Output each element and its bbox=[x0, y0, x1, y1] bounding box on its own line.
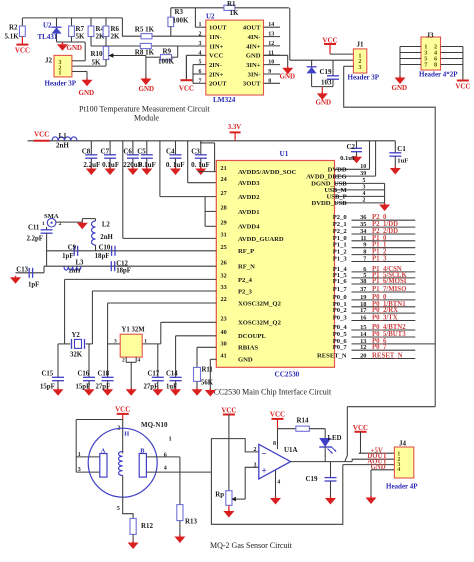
svg-text:VCC: VCC bbox=[270, 411, 285, 419]
svg-text:5: 5 bbox=[117, 506, 120, 512]
svg-text:Module: Module bbox=[134, 114, 159, 123]
svg-text:2.2pF: 2.2pF bbox=[27, 236, 43, 243]
svg-text:1pF: 1pF bbox=[28, 281, 39, 288]
svg-text:1: 1 bbox=[42, 221, 45, 227]
svg-text:J3: J3 bbox=[427, 31, 435, 39]
svg-text:RESET_N: RESET_N bbox=[317, 353, 347, 360]
svg-text:AVDD1: AVDD1 bbox=[238, 209, 260, 216]
svg-text:100K: 100K bbox=[158, 58, 175, 66]
svg-text:AVDD_GUARD: AVDD_GUARD bbox=[238, 236, 284, 243]
svg-text:1IN+: 1IN+ bbox=[209, 43, 224, 50]
svg-text:RF_P: RF_P bbox=[238, 248, 254, 255]
svg-text:3: 3 bbox=[114, 338, 117, 344]
svg-text:AVDD_DREG: AVDD_DREG bbox=[306, 173, 347, 180]
svg-text:40: 40 bbox=[221, 329, 227, 336]
svg-text:C2: C2 bbox=[347, 143, 356, 151]
svg-text:CC2530: CC2530 bbox=[275, 371, 300, 379]
svg-text:10: 10 bbox=[360, 164, 366, 170]
svg-text:103: 103 bbox=[321, 79, 332, 87]
svg-text:3: 3 bbox=[358, 64, 361, 71]
svg-text:P0_3: P0_3 bbox=[333, 315, 348, 322]
svg-text:P2_3: P2_3 bbox=[238, 288, 253, 295]
svg-text:1K: 1K bbox=[230, 9, 240, 17]
svg-text:R9: R9 bbox=[163, 47, 172, 55]
svg-text:+: + bbox=[262, 466, 267, 476]
svg-text:L3: L3 bbox=[76, 260, 85, 267]
svg-text:R5 1K: R5 1K bbox=[135, 26, 155, 34]
svg-text:C17: C17 bbox=[148, 371, 160, 378]
svg-text:C15: C15 bbox=[42, 371, 54, 378]
svg-text:100K: 100K bbox=[173, 17, 190, 25]
svg-text:P1_3: P1_3 bbox=[372, 256, 387, 263]
svg-text:P2_4: P2_4 bbox=[238, 277, 253, 284]
svg-text:U2: U2 bbox=[43, 22, 52, 30]
svg-text:39: 39 bbox=[360, 171, 366, 177]
svg-text:17: 17 bbox=[360, 307, 367, 314]
svg-text:GND: GND bbox=[371, 464, 386, 471]
svg-text:3: 3 bbox=[78, 467, 81, 473]
svg-text:3: 3 bbox=[199, 41, 202, 47]
svg-text:AVDD2: AVDD2 bbox=[238, 194, 260, 201]
svg-text:GND: GND bbox=[139, 85, 155, 93]
svg-text:VCC: VCC bbox=[115, 406, 130, 414]
svg-text:15pF: 15pF bbox=[76, 384, 91, 391]
svg-text:MQ-2 Gas Sensor Circuit: MQ-2 Gas Sensor Circuit bbox=[210, 541, 293, 550]
svg-text:C7: C7 bbox=[101, 147, 110, 155]
svg-text:4IN-: 4IN- bbox=[248, 34, 261, 41]
svg-text:27pF: 27pF bbox=[144, 384, 159, 391]
svg-text:2IN-: 2IN- bbox=[209, 62, 222, 69]
svg-text:P0_2: P0_2 bbox=[333, 307, 348, 314]
svg-text:Y1 32M: Y1 32M bbox=[122, 327, 146, 334]
svg-text:5K: 5K bbox=[76, 33, 86, 41]
svg-text:C5: C5 bbox=[137, 147, 146, 155]
svg-text:C3: C3 bbox=[191, 147, 200, 155]
svg-text:Header 4P: Header 4P bbox=[386, 483, 418, 491]
svg-text:3IN-: 3IN- bbox=[248, 71, 261, 78]
svg-text:A: A bbox=[101, 447, 106, 454]
svg-text:C19: C19 bbox=[320, 68, 333, 76]
svg-text:RF_N: RF_N bbox=[238, 264, 255, 271]
svg-text:4: 4 bbox=[164, 466, 167, 472]
svg-text:12: 12 bbox=[360, 344, 366, 351]
svg-text:Header 3P: Header 3P bbox=[45, 80, 77, 88]
svg-text:CC2530 Main Chip Interface Cir: CC2530 Main Chip Interface Circuit bbox=[214, 388, 333, 397]
svg-text:R14: R14 bbox=[297, 417, 310, 425]
svg-text:VCC: VCC bbox=[179, 85, 194, 93]
svg-text:3: 3 bbox=[363, 185, 366, 191]
svg-text:41: 41 bbox=[221, 353, 227, 360]
svg-text:R3: R3 bbox=[175, 8, 184, 16]
svg-text:P0_7: P0_7 bbox=[333, 344, 348, 351]
svg-text:2K: 2K bbox=[111, 33, 121, 41]
svg-text:2: 2 bbox=[254, 447, 257, 453]
svg-text:20: 20 bbox=[360, 353, 366, 360]
svg-text:MQ-N10: MQ-N10 bbox=[141, 421, 168, 429]
svg-text:U2: U2 bbox=[206, 13, 215, 21]
svg-text:P1_7: P1_7 bbox=[333, 286, 348, 293]
svg-text:2IN+: 2IN+ bbox=[209, 71, 224, 78]
svg-text:6: 6 bbox=[164, 453, 167, 459]
svg-text:Y2: Y2 bbox=[72, 332, 81, 339]
svg-text:2: 2 bbox=[363, 198, 366, 204]
svg-text:32: 32 bbox=[221, 273, 227, 280]
svg-text:31: 31 bbox=[221, 232, 227, 239]
svg-text:P1_6/MOSI: P1_6/MOSI bbox=[372, 278, 407, 285]
svg-text:GND: GND bbox=[316, 99, 332, 107]
svg-text:P0_4: P0_4 bbox=[333, 324, 348, 331]
svg-text:27pF: 27pF bbox=[96, 384, 111, 391]
svg-text:5K: 5K bbox=[92, 59, 102, 67]
svg-text:XOSC32M_Q2: XOSC32M_Q2 bbox=[238, 300, 282, 307]
svg-text:L2: L2 bbox=[102, 222, 111, 229]
svg-text:P1_3: P1_3 bbox=[333, 256, 348, 263]
svg-text:5.1K: 5.1K bbox=[5, 33, 20, 41]
svg-text:J2: J2 bbox=[45, 57, 53, 65]
svg-text:21: 21 bbox=[221, 165, 227, 172]
svg-text:C13: C13 bbox=[16, 266, 28, 273]
svg-text:0. 1uF: 0. 1uF bbox=[166, 161, 185, 169]
svg-text:0.1uF: 0.1uF bbox=[340, 155, 356, 162]
svg-text:P0_7: P0_7 bbox=[372, 344, 387, 351]
svg-text:3IN+: 3IN+ bbox=[246, 62, 261, 69]
svg-text:C12: C12 bbox=[116, 260, 128, 267]
svg-text:18pF: 18pF bbox=[116, 267, 131, 274]
svg-text:26: 26 bbox=[221, 259, 227, 266]
svg-text:AVDD5/AVDD_SOC: AVDD5/AVDD_SOC bbox=[238, 169, 297, 176]
svg-text:2: 2 bbox=[199, 32, 202, 38]
svg-text:L1: L1 bbox=[59, 132, 68, 140]
svg-text:56K: 56K bbox=[201, 380, 214, 387]
svg-text:XOSC32M_Q2: XOSC32M_Q2 bbox=[238, 320, 282, 327]
svg-text:VCC: VCC bbox=[353, 424, 368, 432]
svg-text:1OUT: 1OUT bbox=[209, 25, 227, 32]
svg-text:GND: GND bbox=[246, 53, 261, 60]
svg-text:2OUT: 2OUT bbox=[209, 81, 227, 88]
svg-text:33: 33 bbox=[221, 284, 227, 291]
svg-text:C4: C4 bbox=[166, 147, 175, 155]
svg-text:C9: C9 bbox=[68, 244, 77, 251]
svg-text:8: 8 bbox=[434, 62, 437, 69]
svg-text:U1: U1 bbox=[280, 150, 289, 158]
svg-text:30: 30 bbox=[221, 341, 227, 348]
svg-text:4: 4 bbox=[397, 467, 400, 473]
svg-text:2: 2 bbox=[122, 357, 125, 363]
svg-text:DVDD_USB: DVDD_USB bbox=[312, 200, 348, 207]
svg-text:0.1uF: 0.1uF bbox=[139, 161, 156, 169]
svg-text:P1_7/MISO: P1_7/MISO bbox=[372, 286, 406, 293]
svg-text:15pF: 15pF bbox=[40, 384, 55, 391]
svg-text:RESET_N: RESET_N bbox=[372, 353, 403, 360]
svg-text:1IN-: 1IN- bbox=[209, 34, 222, 41]
svg-text:GND: GND bbox=[392, 84, 408, 92]
svg-text:2nH: 2nH bbox=[100, 234, 113, 241]
svg-text:3.3V: 3.3V bbox=[228, 124, 241, 131]
svg-text:Rp: Rp bbox=[215, 492, 224, 499]
svg-text:R1: R1 bbox=[227, 0, 236, 8]
svg-text:2nH: 2nH bbox=[69, 268, 81, 275]
svg-text:VCC: VCC bbox=[15, 47, 30, 55]
svg-text:VCC: VCC bbox=[34, 131, 49, 139]
svg-text:8: 8 bbox=[273, 441, 276, 447]
svg-text:4: 4 bbox=[138, 357, 141, 363]
svg-text:4OUT: 4OUT bbox=[243, 25, 261, 32]
svg-text:U1A: U1A bbox=[284, 446, 298, 454]
svg-text:3: 3 bbox=[254, 462, 257, 468]
svg-text:VCC: VCC bbox=[455, 83, 470, 91]
svg-text:C6: C6 bbox=[123, 147, 132, 155]
svg-text:LM324: LM324 bbox=[213, 96, 236, 104]
svg-text:RBIAS: RBIAS bbox=[238, 345, 258, 352]
svg-text:22: 22 bbox=[221, 296, 227, 303]
svg-text:32K: 32K bbox=[70, 352, 83, 359]
svg-text:4: 4 bbox=[363, 191, 366, 197]
svg-text:4: 4 bbox=[277, 479, 280, 485]
svg-text:LED: LED bbox=[328, 435, 342, 442]
svg-text:27: 27 bbox=[221, 190, 227, 197]
svg-text:18pF: 18pF bbox=[95, 253, 110, 260]
svg-text:C16: C16 bbox=[78, 371, 90, 378]
svg-text:1: 1 bbox=[78, 452, 81, 458]
svg-text:C10: C10 bbox=[99, 244, 111, 251]
svg-text:C14: C14 bbox=[166, 371, 178, 378]
svg-text:GND: GND bbox=[238, 357, 253, 364]
svg-text:38: 38 bbox=[360, 278, 366, 285]
svg-text:1: 1 bbox=[169, 437, 172, 443]
svg-text:P1_6: P1_6 bbox=[333, 278, 348, 285]
svg-text:P0_2/RX: P0_2/RX bbox=[372, 307, 398, 314]
svg-text:1uF: 1uF bbox=[166, 384, 177, 391]
svg-text:C19: C19 bbox=[306, 475, 319, 483]
svg-text:VCC: VCC bbox=[209, 53, 224, 60]
svg-text:C1: C1 bbox=[397, 145, 406, 153]
svg-text:1pF: 1pF bbox=[62, 253, 73, 260]
svg-text:R13: R13 bbox=[185, 518, 198, 526]
svg-text:4IN+: 4IN+ bbox=[246, 43, 261, 50]
svg-text:3OUT: 3OUT bbox=[243, 81, 261, 88]
svg-text:GND: GND bbox=[67, 44, 83, 52]
svg-text:R12: R12 bbox=[141, 522, 154, 530]
svg-text:C18: C18 bbox=[98, 371, 110, 378]
svg-text:5: 5 bbox=[363, 178, 366, 184]
svg-text:16: 16 bbox=[360, 315, 367, 322]
svg-text:Header 4*2P: Header 4*2P bbox=[419, 71, 458, 79]
svg-text:C8: C8 bbox=[82, 147, 91, 155]
svg-text:P0_3/TX: P0_3/TX bbox=[372, 315, 398, 322]
svg-text:1: 1 bbox=[58, 70, 61, 77]
svg-text:23: 23 bbox=[221, 316, 227, 323]
svg-text:TL431: TL431 bbox=[38, 33, 58, 41]
svg-text:37: 37 bbox=[360, 286, 367, 293]
svg-text:VCC: VCC bbox=[221, 407, 236, 415]
svg-text:C11: C11 bbox=[28, 224, 40, 231]
svg-text:7: 7 bbox=[424, 62, 427, 69]
svg-text:R10: R10 bbox=[91, 50, 104, 58]
svg-text:GND: GND bbox=[280, 73, 296, 81]
svg-text:R2: R2 bbox=[9, 24, 18, 32]
svg-text:R11: R11 bbox=[202, 367, 214, 374]
svg-text:1uF: 1uF bbox=[397, 158, 408, 165]
svg-text:29: 29 bbox=[221, 220, 227, 227]
svg-text:−: − bbox=[262, 449, 267, 459]
svg-text:DCOUPL: DCOUPL bbox=[238, 333, 266, 340]
svg-text:GND: GND bbox=[79, 89, 95, 97]
svg-text:J4: J4 bbox=[399, 439, 407, 447]
svg-text:24: 24 bbox=[221, 176, 227, 183]
svg-text:1: 1 bbox=[144, 338, 147, 344]
svg-text:25: 25 bbox=[221, 244, 227, 251]
svg-text:0.1uF: 0.1uF bbox=[102, 161, 119, 169]
svg-text:AVDD4: AVDD4 bbox=[238, 224, 260, 231]
svg-text:H: H bbox=[124, 431, 129, 438]
svg-text:2nH: 2nH bbox=[56, 142, 69, 150]
svg-text:Pt100 Temperature Measurement: Pt100 Temperature Measurement Circuit bbox=[79, 105, 210, 114]
svg-text:J1: J1 bbox=[357, 41, 365, 49]
svg-text:0. 1uF: 0. 1uF bbox=[191, 161, 210, 169]
svg-text:P0_4/BTN2: P0_4/BTN2 bbox=[372, 324, 406, 331]
svg-text:AVDD3: AVDD3 bbox=[238, 180, 260, 187]
svg-text:2.2uF: 2.2uF bbox=[83, 161, 100, 169]
svg-text:28: 28 bbox=[221, 205, 227, 212]
svg-text:Header 3P: Header 3P bbox=[348, 74, 380, 82]
svg-text:15: 15 bbox=[360, 324, 366, 331]
